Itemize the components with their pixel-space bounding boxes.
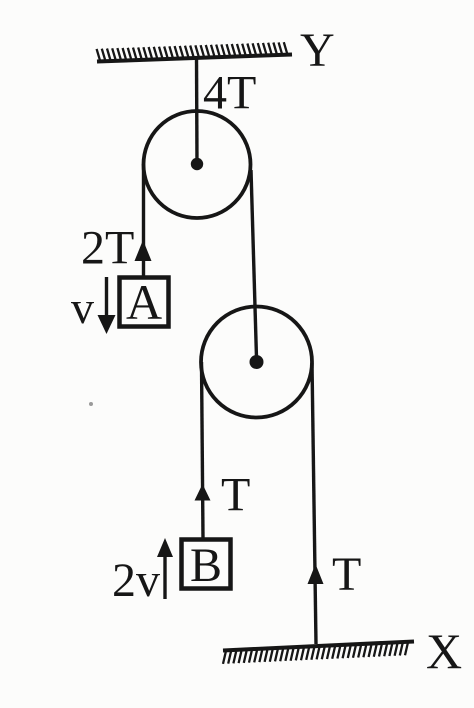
svg-text:v: v <box>71 282 94 333</box>
wire: right string of P2 down to floor X <box>312 363 316 644</box>
svg-text:B: B <box>190 539 222 592</box>
block B <box>182 540 231 589</box>
wire: string from P1 right side to P2 axle <box>251 170 257 358</box>
pulley P2 <box>201 307 312 418</box>
arrow up (tension T) <box>308 564 324 584</box>
svg-text:2T: 2T <box>81 222 134 275</box>
svg-text:A: A <box>126 274 162 330</box>
svg-text:T: T <box>332 548 361 601</box>
svg-text:2v: 2v <box>112 554 160 607</box>
pulley P1 axle dot <box>191 158 203 170</box>
arrow up (tension 2T) <box>135 240 152 261</box>
wire: 4T string from ceiling to pulley P1 axle <box>195 57 199 164</box>
arrow down (velocity v) <box>105 277 108 320</box>
block A <box>120 278 169 327</box>
svg-text:Y: Y <box>300 24 335 77</box>
ceiling Y (hatched support) <box>97 42 292 61</box>
arrow up (velocity 2v) <box>163 556 166 599</box>
wire: left string of P2 down to block B <box>202 362 204 538</box>
svg-text:T: T <box>221 469 250 522</box>
svg-text:X: X <box>426 623 462 679</box>
floor X (hatched support) <box>223 642 414 664</box>
pulley P2 axle dot <box>250 355 264 369</box>
wire: left string of P1 down to block A <box>142 164 145 276</box>
arrow up (tension T) <box>195 484 211 501</box>
pulley P1 <box>144 111 251 218</box>
scan speck <box>89 402 93 406</box>
